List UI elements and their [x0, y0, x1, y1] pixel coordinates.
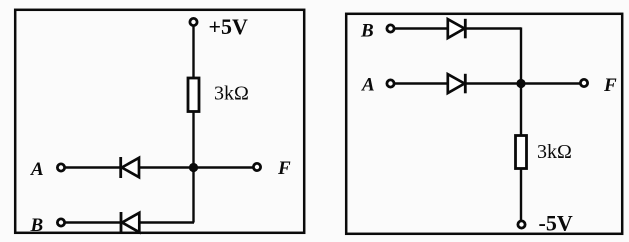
svg-text:F: F: [603, 75, 617, 96]
svg-text:3kΩ: 3kΩ: [537, 141, 572, 163]
svg-text:B: B: [360, 21, 374, 42]
svg-text:3kΩ: 3kΩ: [214, 83, 249, 105]
svg-text:-5V: -5V: [539, 211, 573, 236]
svg-text:+5V: +5V: [209, 14, 249, 39]
svg-text:A: A: [361, 75, 375, 96]
svg-text:B: B: [30, 215, 44, 236]
svg-text:A: A: [30, 159, 44, 180]
svg-text:F: F: [277, 158, 291, 179]
